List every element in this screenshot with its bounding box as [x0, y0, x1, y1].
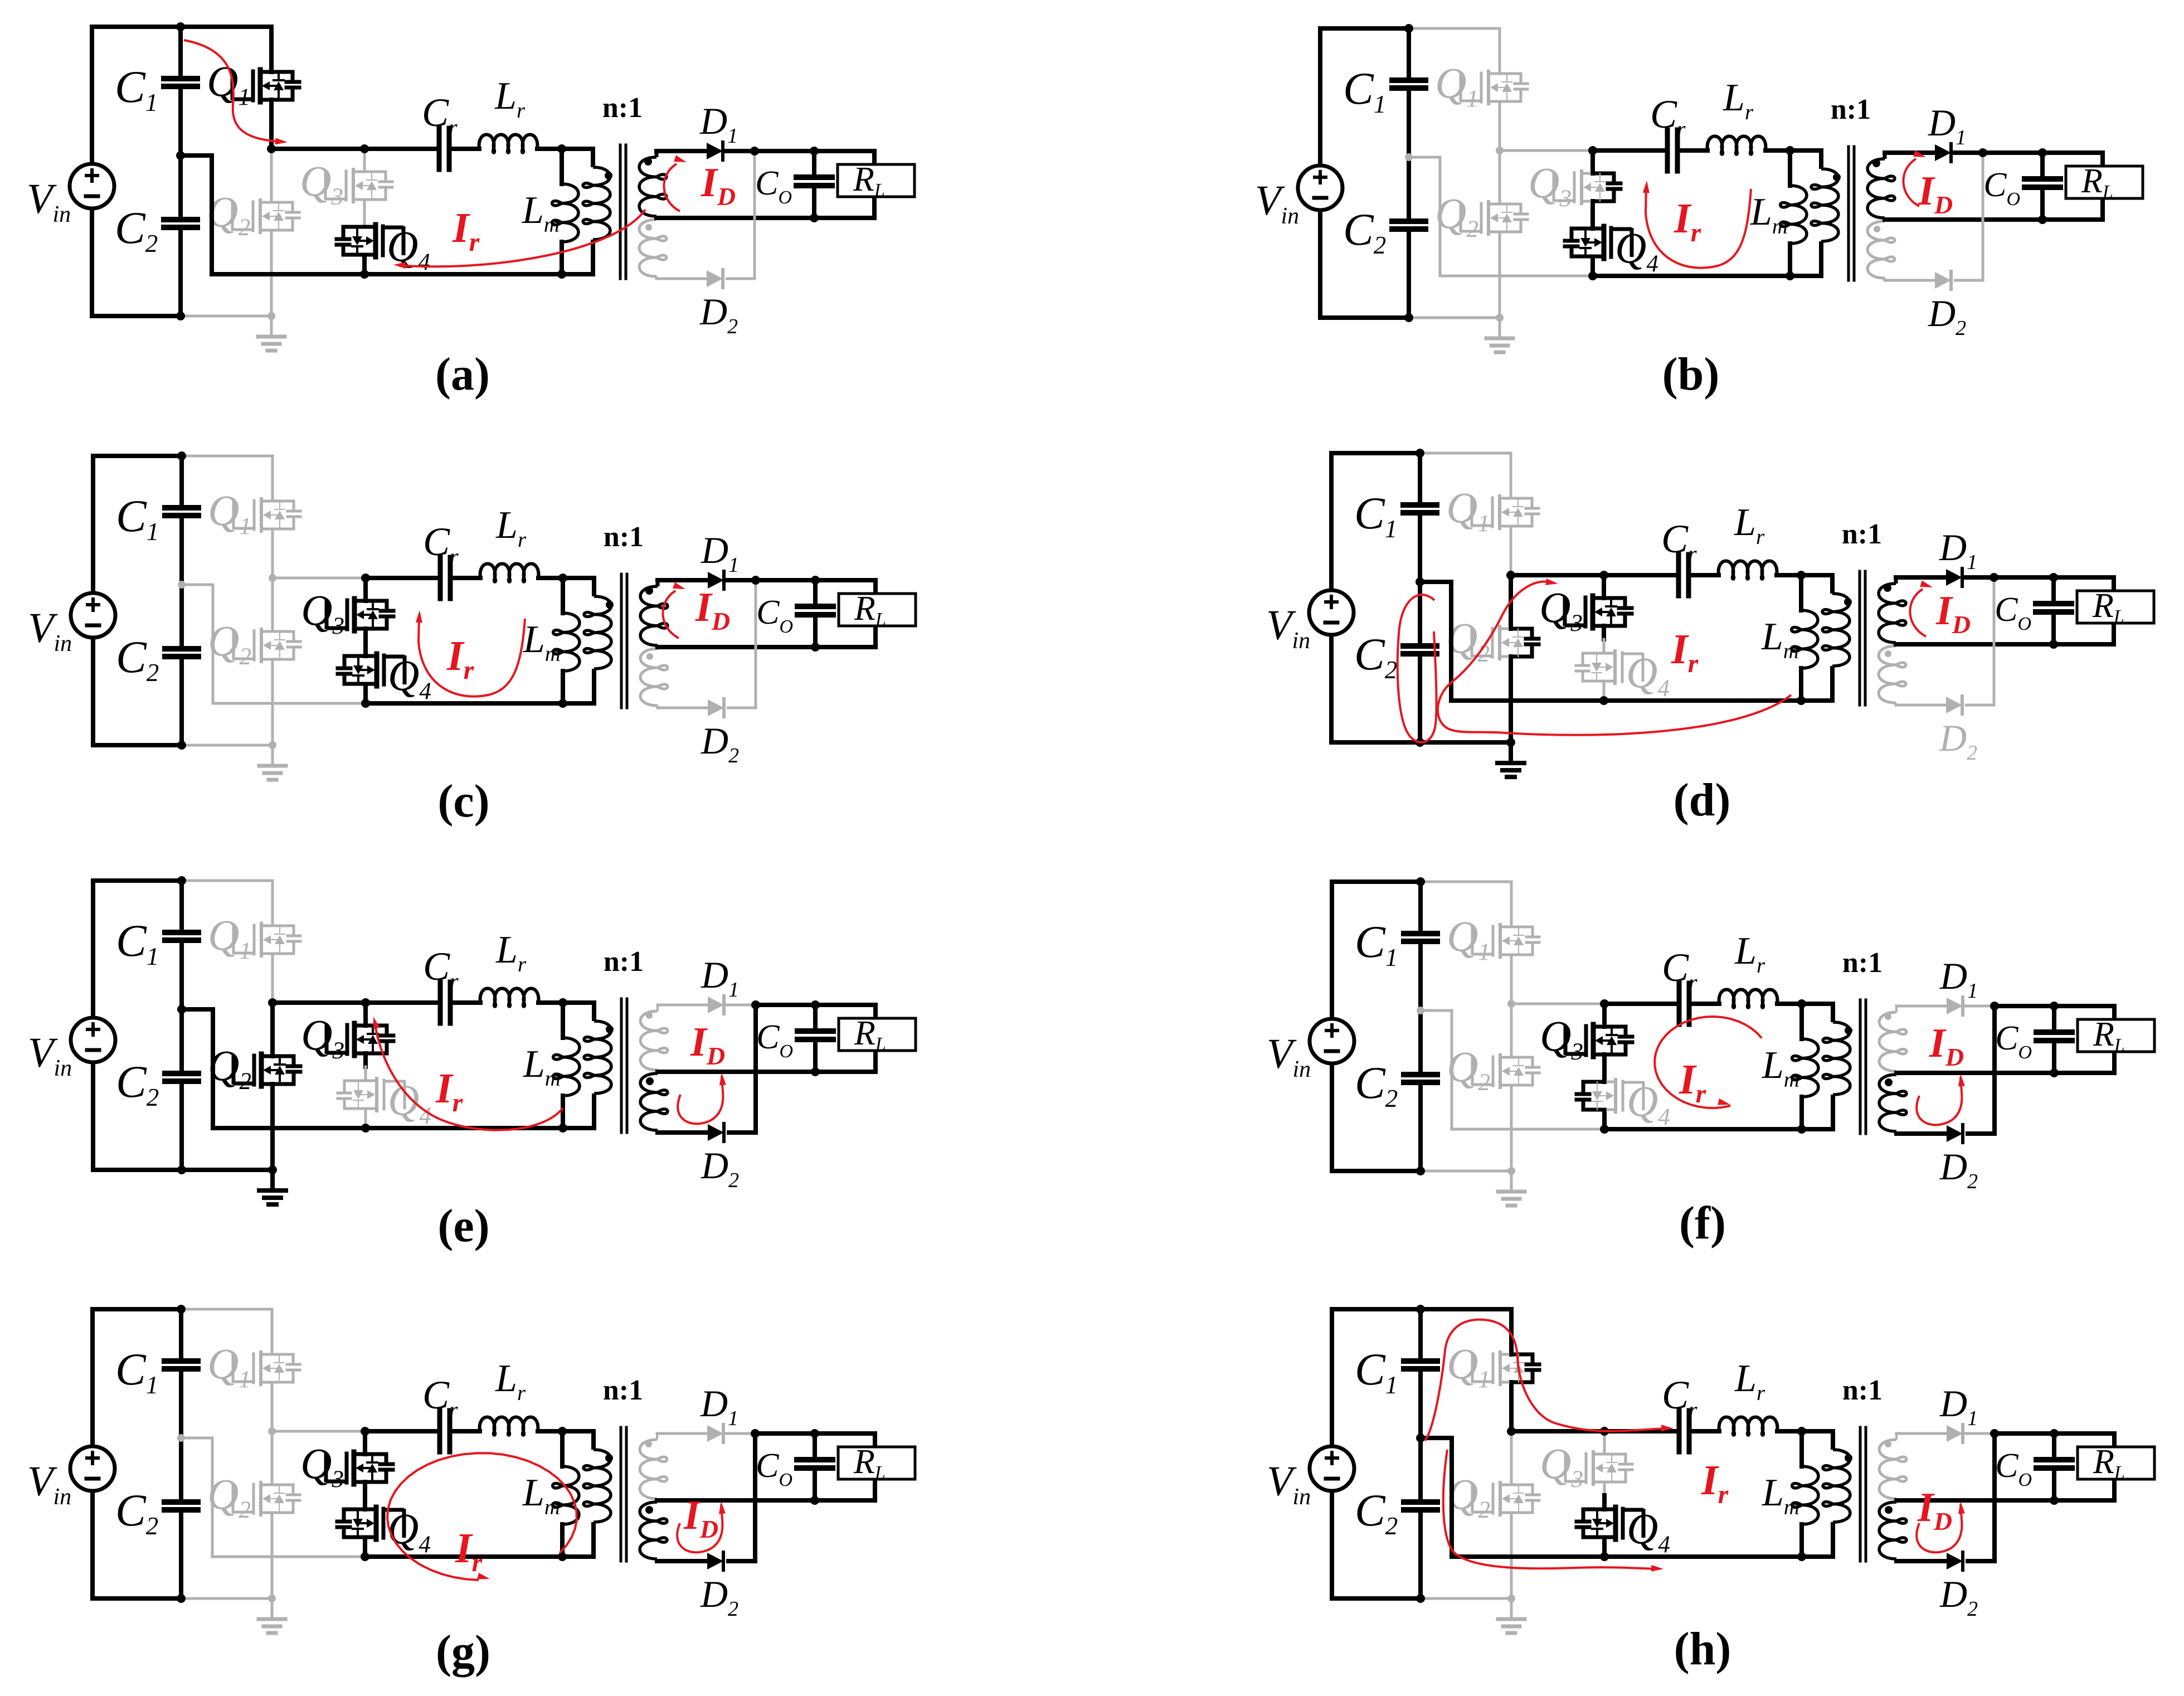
wire: Q1 branch (a) [269, 27, 274, 149]
secondary bottom polarity dot (c) [646, 653, 653, 660]
ground (d) [1509, 742, 1513, 762]
node: Co top (h) [2050, 1429, 2059, 1438]
transistor Q4 (d) [1576, 648, 1670, 702]
wire: secondary top to D1 (d) [1896, 575, 1946, 580]
wire: top rail C1 to Q1 (b) [1409, 27, 1500, 30]
node: Co bottom (c) [811, 643, 820, 652]
capacitor C2 (a) [115, 155, 197, 316]
secondary bottom polarity dot (b) [1874, 226, 1880, 232]
transformer secondary top winding (b) [1867, 153, 1895, 218]
node: Q1 source rail (c) [269, 574, 276, 582]
transformer primary winding (f) [1802, 1004, 1850, 1129]
diode D2 (h) [1939, 1552, 1978, 1621]
transistor Q1 (f) [1447, 912, 1539, 965]
svg-text:n:1: n:1 [602, 92, 643, 124]
wire: rail Q3 to Cr (e) [366, 1000, 438, 1005]
secondary bottom polarity dot (e) [646, 1077, 654, 1085]
node: Vin-/C2 (e) [177, 1165, 186, 1174]
node: Q3 drain rail (d) [1599, 571, 1608, 580]
wire: output top rail (c) [815, 580, 875, 594]
capacitor C2 (b) [1343, 157, 1426, 318]
capacitor C1 (c) [116, 456, 198, 585]
transistor Q3 (h) [1540, 1439, 1632, 1493]
resistor RL (g) [838, 1443, 915, 1483]
capacitor Co (e) [756, 1005, 833, 1072]
node: D1 cathode junction (b) [1978, 148, 1987, 157]
wire: Q3 branch (c) [363, 578, 368, 656]
wire: center tap rail (a) [656, 216, 814, 220]
capacitor C1 (a) [115, 27, 197, 155]
wire: rail Q3 to Cr (f) [1604, 1002, 1677, 1006]
transistor Q3 (b) [1528, 158, 1621, 212]
svg-text:(b): (b) [1662, 348, 1720, 400]
wire: bottom rail extension to ground node (h) [1421, 1597, 1511, 1600]
svg-text:(f): (f) [1679, 1197, 1726, 1249]
node: ground rail (d) [1506, 738, 1515, 747]
wire: secondary top to D1 (b) [1885, 150, 1935, 155]
diode D1 (f) [1939, 955, 1978, 1015]
capacitor Cr (h) [1662, 1373, 1697, 1452]
node: Vin+/C1 (a) [176, 22, 185, 31]
wire: Q3 branch (h) [1603, 1431, 1606, 1509]
node: Co bottom (a) [810, 213, 819, 222]
transformer secondary bottom winding (e) [640, 1073, 668, 1133]
node: ground rail (a) [267, 312, 275, 320]
wire: bottom rail extension to ground node (c) [182, 744, 273, 747]
node: Vin-/C2 (a) [176, 312, 185, 320]
inductor Lm (f) [1762, 1004, 1818, 1129]
wire: D1 to output node (h) [1966, 1432, 2054, 1435]
wire: bottom tank rail left (e) [213, 1126, 366, 1130]
wire: D1 to output node (f) [1966, 1005, 2054, 1008]
inductor Lr (f) [1719, 930, 1778, 1008]
wire: bottom rail extension to ground node (f) [1421, 1170, 1511, 1173]
wire: V_in left loop (b) [1320, 28, 1409, 318]
wire: Q2 branch (c) [271, 578, 274, 745]
transformer core (b) [1849, 147, 1854, 280]
transistor Q2 (d) [1446, 614, 1539, 667]
transistor Q3 (g) [300, 1439, 393, 1493]
wire: bottom tank rail right (d) [1604, 698, 1832, 703]
current loop I_r (g) [387, 1453, 577, 1580]
node: Q3 drain rail (b) [1588, 146, 1597, 155]
wire: D1 to output node (b) [1954, 150, 2042, 155]
transistor Q4 (f) [1577, 1077, 1670, 1130]
node: Co top (a) [810, 147, 819, 155]
wire: D2 return vertical (b) [1954, 153, 1983, 280]
capacitor Cr (b) [1650, 92, 1686, 171]
wire: bottom tank rail left (a) [212, 272, 364, 276]
current loop I_D (a) [664, 155, 687, 212]
wire: Q1 branch (f) [1510, 882, 1513, 1004]
wire: Q1 branch (h) [1509, 1309, 1514, 1431]
wire: Q3 branch (d) [1602, 575, 1606, 653]
voltage source V_in (d) [1266, 590, 1354, 654]
transformer secondary top winding (h) [1879, 1433, 1906, 1499]
node: Q1 source rail (a) [267, 144, 276, 153]
wire: center tap rail (g) [657, 1498, 815, 1503]
wire: center tap rail (e) [658, 1070, 815, 1074]
node: Vin-/C2 (c) [177, 741, 186, 750]
wire: V_in left loop (g) [93, 1309, 181, 1598]
ground (a) [270, 316, 273, 336]
diode D1 (b) [1928, 101, 1966, 162]
transformer secondary bottom winding (c) [640, 649, 668, 708]
primary polarity dot (b) [1833, 173, 1841, 181]
wire: bottom rail extension to ground node (d) [1420, 740, 1511, 745]
svg-text:(d): (d) [1674, 774, 1731, 826]
inductor Lr (g) [480, 1357, 538, 1435]
node: Lm top (h) [1797, 1427, 1806, 1436]
inductor Lm (e) [523, 1003, 580, 1128]
transformer secondary bottom winding (d) [1879, 646, 1906, 705]
capacitor C1 (e) [116, 881, 198, 1009]
capacitor Co (c) [756, 580, 833, 647]
wire: bottom tank rail left (c) [213, 702, 366, 705]
wire: Q2 branch (g) [271, 1431, 274, 1598]
wire: top tank rail Q1 to Q3 (h) [1511, 1429, 1604, 1433]
wire: center tap rail (h) [1896, 1498, 2054, 1503]
resistor RL (e) [839, 1014, 916, 1054]
svg-text:n:1: n:1 [604, 946, 644, 978]
node: Q3 drain rail (e) [361, 998, 370, 1007]
node: Lm bottom (a) [557, 270, 566, 279]
transistor Q4 (b) [1565, 223, 1658, 277]
node: D1 cathode junction (d) [1990, 573, 1998, 582]
node: Lm top (a) [557, 144, 566, 153]
capacitor Cr (a) [422, 90, 458, 169]
transformer core (f) [1860, 1000, 1866, 1134]
node: Co bottom (h) [2050, 1496, 2059, 1505]
diode D1 (d) [1939, 526, 1977, 586]
node: Vin+/C1 (b) [1404, 24, 1413, 33]
wire: rail Q3 to Cr (d) [1604, 573, 1676, 577]
wire: D2 return vertical (h) [1966, 1433, 1995, 1561]
wire: top rail C1 to Q1 (g) [181, 1308, 272, 1311]
node: Vin+/C1 (c) [177, 451, 186, 460]
inductor Lm (c) [523, 578, 580, 703]
primary polarity dot (h) [1845, 1454, 1852, 1462]
wire: top rail C1 to Q1 (c) [182, 455, 273, 458]
primary polarity dot (d) [1844, 598, 1852, 606]
inductor Lr (e) [480, 929, 539, 1007]
node: Lm top (f) [1797, 999, 1806, 1008]
node: Lm top (b) [1786, 146, 1794, 155]
wire: Q4 source stub (e) [364, 1109, 367, 1128]
wire: Q1 branch (b) [1499, 28, 1501, 150]
wire: C1-C2 midpoint jog (e) [182, 1009, 213, 1128]
capacitor C2 (e) [116, 1009, 198, 1170]
voltage source V_in (b) [1255, 166, 1342, 229]
wire: D2 return vertical (g) [726, 1433, 755, 1561]
transistor Q3 (d) [1539, 583, 1632, 636]
wire: Q4 source stub (b) [1590, 257, 1595, 276]
wire: bottom tank rail left (f) [1452, 1128, 1604, 1131]
wire: output bottom rail (d) [2054, 623, 2114, 644]
wire: bottom tank rail right (e) [366, 1126, 594, 1130]
wire: secondary bottom to D2 (d) [1896, 704, 1946, 707]
capacitor C2 (c) [116, 585, 198, 745]
capacitor C2 (g) [115, 1438, 198, 1598]
transformer secondary bottom winding (a) [639, 220, 667, 279]
node: C1/C2 midpoint (f) [1417, 1007, 1424, 1014]
wire: Cr to Lr (d) [1691, 573, 1719, 577]
capacitor Co (g) [756, 1433, 833, 1500]
capacitor Cr (f) [1662, 945, 1697, 1024]
wire: Q4 source stub (f) [1602, 1110, 1607, 1129]
wire: output bottom rail (g) [815, 1479, 875, 1500]
wire: Q3 branch (a) [363, 149, 366, 227]
wire: top rail C1 to Q1 (a) [181, 25, 271, 29]
wire: Cr to Lr (f) [1691, 1002, 1719, 1006]
wire: output bottom rail (c) [815, 626, 875, 647]
secondary bottom polarity dot (a) [645, 224, 652, 231]
wire: output bottom rail (h) [2054, 1479, 2114, 1500]
wire: bottom tank rail right (g) [365, 1554, 594, 1559]
wire: Lr to node (g) [538, 1429, 562, 1433]
wire: bottom rail extension to ground node (e) [182, 1168, 273, 1172]
wire: D1 to output node (a) [726, 149, 814, 153]
node: Lm top (g) [558, 1427, 567, 1436]
wire: Lr to node (e) [538, 1000, 563, 1005]
wire: secondary top to D1 (c) [658, 578, 708, 582]
node: D1 cathode junction (a) [750, 147, 759, 155]
wire: Q2 branch (d) [1509, 575, 1513, 742]
node: C1/C2 midpoint (d) [1416, 577, 1424, 586]
ground (f) [1510, 1171, 1513, 1191]
node: Vin-/C2 (b) [1404, 313, 1413, 322]
transformer secondary bottom winding (b) [1867, 221, 1895, 280]
primary polarity dot (f) [1845, 1027, 1852, 1034]
current loop I_r (d) [1398, 579, 1791, 742]
wire: top tank rail Q1 to Q3 (a) [271, 147, 364, 151]
current loop I_r (a) [184, 40, 645, 269]
transformer secondary top winding (c) [640, 580, 668, 645]
node: Co bottom (b) [2038, 215, 2047, 224]
wire: C1-C2 midpoint jog (b) [1409, 157, 1440, 276]
current loop I_D (b) [1903, 150, 1926, 207]
wire: rail Q3 to Cr (b) [1593, 148, 1665, 153]
wire: bottom tank rail left (b) [1440, 275, 1593, 278]
node: C1/C2 midpoint (g) [177, 1434, 185, 1442]
wire: bottom tank rail left (d) [1451, 698, 1604, 703]
inductor Lr (a) [479, 75, 538, 153]
diode D1 (a) [699, 100, 738, 160]
wire: D2 return vertical (e) [727, 1005, 756, 1133]
transistor Q4 (h) [1577, 1504, 1670, 1558]
node: C1/C2 midpoint (a) [176, 151, 185, 160]
wire: rail Q3 to Cr (c) [366, 576, 438, 580]
capacitor C1 (f) [1355, 882, 1437, 1010]
node: Vin-/C2 (d) [1416, 738, 1424, 747]
secondary top polarity dot (h) [1885, 1441, 1891, 1447]
primary polarity dot (a) [605, 172, 612, 179]
node: D1 cathode junction (g) [751, 1429, 760, 1438]
wire: D1 to output node (e) [727, 1004, 815, 1007]
svg-text:n:1: n:1 [1831, 94, 1871, 125]
current loop I_r (e) [373, 1017, 563, 1130]
transistor Q3 (e) [301, 1010, 393, 1064]
node: ground rail (b) [1496, 314, 1504, 322]
wire: Q4 source stub (g) [363, 1538, 367, 1557]
wire: D1 to output node (d) [1965, 575, 2054, 580]
wire: Cr to Lr (a) [451, 147, 479, 151]
capacitor C1 (g) [115, 1309, 198, 1438]
node: Lm bottom (d) [1797, 696, 1806, 705]
transformer secondary top winding (g) [640, 1433, 667, 1499]
primary polarity dot (g) [605, 1454, 613, 1462]
wire: secondary top to D1 (h) [1896, 1432, 1947, 1435]
current loop I_r (c) [416, 610, 525, 697]
node: Q1 source rail (g) [268, 1427, 276, 1435]
capacitor Cr (g) [422, 1373, 458, 1452]
node: Co top (d) [2049, 573, 2058, 582]
voltage source V_in (g) [27, 1446, 115, 1510]
transformer core (c) [621, 574, 627, 708]
transistor Q1 (h) [1447, 1339, 1539, 1393]
node: Co bottom (e) [811, 1067, 820, 1076]
wire: Lr to node (c) [538, 576, 563, 580]
node: Q4 source rail (e) [361, 1124, 370, 1133]
wire: V_in left loop (f) [1332, 882, 1421, 1171]
wire: D2 return vertical (c) [727, 580, 756, 708]
wire: center tap rail (f) [1896, 1071, 2054, 1075]
wire: bottom tank rail right (b) [1593, 274, 1821, 278]
wire: secondary top to D1 (g) [657, 1432, 707, 1435]
transformer core (d) [1860, 571, 1865, 705]
node: Vin-/C2 (h) [1416, 1594, 1425, 1603]
transformer secondary top winding (a) [639, 151, 667, 216]
node: Lm bottom (c) [558, 699, 567, 708]
transistor Q4 (a) [337, 222, 430, 275]
wire: secondary bottom to D2 (f) [1896, 1131, 1947, 1136]
wire: Cr to Lr (g) [452, 1429, 480, 1433]
wire: C1-C2 midpoint jog (h) [1421, 1438, 1452, 1557]
node: Q1 source rail (b) [1496, 147, 1504, 154]
node: ground rail (f) [1507, 1167, 1515, 1175]
node: Q4 source rail (g) [361, 1552, 369, 1561]
wire: top tank rail Q1 to Q3 (f) [1511, 1003, 1604, 1005]
capacitor Co (d) [1995, 577, 2071, 644]
wire: secondary top to D1 (a) [656, 149, 707, 153]
wire: secondary bottom to D2 (e) [658, 1130, 708, 1135]
node: Co top (c) [811, 576, 820, 585]
node: Lm bottom (f) [1797, 1125, 1806, 1134]
wire: secondary bottom to D2 (g) [657, 1559, 707, 1563]
node: Vin+/C1 (f) [1416, 877, 1425, 886]
diode D2 (c) [701, 699, 739, 767]
wire: top rail C1 to Q1 (h) [1421, 1307, 1511, 1311]
node: Q3 drain rail (a) [360, 144, 369, 153]
transformer core (e) [621, 999, 627, 1133]
node: Co top (b) [2038, 148, 2047, 157]
wire: Q4 source stub (h) [1602, 1538, 1607, 1557]
wire: center tap rail (b) [1885, 217, 2042, 222]
node: Lm bottom (b) [1786, 271, 1794, 280]
transformer core (h) [1860, 1427, 1866, 1561]
capacitor C2 (h) [1355, 1438, 1437, 1598]
node: ground rail (e) [268, 1165, 277, 1174]
inductor Lr (c) [480, 504, 539, 582]
transistor Q1 (b) [1435, 59, 1528, 112]
wire: Lr to node (d) [1777, 573, 1801, 577]
wire: Q1 branch (c) [271, 456, 274, 578]
diode D2 (a) [699, 270, 738, 338]
wire: top tank rail Q1 to Q3 (d) [1511, 573, 1604, 577]
resistor RL (d) [2077, 587, 2154, 627]
capacitor C2 (d) [1354, 582, 1437, 742]
wire: bottom rail extension to ground node (b) [1409, 317, 1500, 319]
inductor Lm (a) [522, 149, 578, 274]
node: Q4 source rail (h) [1600, 1552, 1609, 1561]
wire: secondary top to D1 (e) [658, 1004, 708, 1007]
wire: V_in left loop (c) [93, 456, 182, 745]
capacitor Co (a) [755, 151, 832, 218]
node: Q1 source rail (e) [268, 998, 277, 1007]
node: Vin-/C2 (f) [1416, 1167, 1425, 1175]
node: C1/C2 midpoint (c) [178, 581, 186, 589]
wire: Q3 branch (e) [363, 1003, 368, 1081]
secondary top polarity dot (e) [646, 1012, 653, 1019]
wire: bottom rail extension to ground node (g) [181, 1597, 272, 1600]
secondary top polarity dot (c) [645, 587, 653, 595]
wire: C1-C2 midpoint jog (c) [182, 585, 213, 703]
transformer primary winding (c) [563, 578, 611, 703]
transistor Q1 (a) [207, 57, 299, 110]
wire: secondary bottom to D2 (a) [656, 278, 707, 280]
transistor Q2 (f) [1447, 1042, 1539, 1096]
transistor Q4 (c) [338, 651, 431, 704]
transformer core (g) [621, 1427, 626, 1561]
wire: V_in left loop (d) [1331, 453, 1420, 742]
svg-text:(g): (g) [436, 1626, 490, 1678]
node: Co top (f) [2050, 1002, 2059, 1010]
node: Q1 source rail (f) [1507, 1000, 1515, 1008]
wire: Q2 branch (h) [1510, 1431, 1513, 1598]
node: Q3 drain rail (c) [361, 574, 370, 582]
diode D2 (e) [701, 1124, 739, 1192]
transformer primary winding (e) [563, 1003, 611, 1128]
transistor Q4 (e) [338, 1076, 431, 1129]
wire: D2 return vertical (a) [726, 151, 755, 279]
node: Lm bottom (g) [558, 1552, 567, 1561]
node: Q3 drain rail (f) [1600, 999, 1609, 1008]
wire: Q2 branch (f) [1510, 1004, 1513, 1171]
wire: Q4 source stub (a) [362, 255, 367, 274]
wire: output top rail (a) [814, 151, 874, 164]
diode D1 (e) [701, 954, 739, 1014]
inductor Lm (h) [1762, 1431, 1818, 1557]
current loop I_r (h) [1425, 1320, 1674, 1572]
diode D1 (g) [700, 1382, 738, 1442]
wire: Q4 source stub (c) [363, 684, 368, 703]
ground (b) [1499, 318, 1501, 338]
node: C1/C2 midpoint (h) [1416, 1433, 1425, 1442]
wire: top rail C1 to Q1 (f) [1421, 881, 1511, 883]
wire: top tank rail Q1 to Q3 (e) [273, 1000, 366, 1005]
transformer secondary bottom winding (g) [640, 1502, 667, 1561]
capacitor C1 (d) [1354, 453, 1437, 582]
voltage source V_in (h) [1267, 1446, 1354, 1510]
node: Co bottom (f) [2050, 1068, 2059, 1077]
wire: output bottom rail (e) [815, 1051, 875, 1072]
wire: secondary bottom to D2 (c) [658, 707, 708, 709]
wire: rail Q3 to Cr (a) [364, 147, 437, 151]
wire: center tap rail (d) [1896, 642, 2054, 647]
capacitor Co (h) [1995, 1433, 2072, 1500]
wire: rail Q3 to Cr (h) [1604, 1429, 1677, 1433]
capacitor Co (f) [1995, 1006, 2072, 1073]
